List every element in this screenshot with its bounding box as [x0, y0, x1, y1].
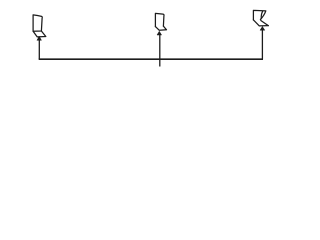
- lightning-protection schematic: three air-terminal flags on a roof conductor with down conductor: [0, 0, 300, 74]
- air terminal F1 (flag, left): [33, 15, 46, 37]
- air terminal F3 (flag, right): [253, 10, 268, 26]
- wire: left rod lead down to roof conductor: [38, 40, 40, 59]
- wire: middle rod lead down through roof conductor: [159, 35, 161, 59]
- wire: right rod lead down to roof conductor: [261, 30, 263, 59]
- arrowhead (right rod tip): [260, 27, 265, 31]
- arrowhead (middle rod tip): [157, 31, 162, 35]
- arrowhead (left rod tip): [37, 36, 42, 40]
- air terminal F2 (flag, middle): [155, 13, 166, 30]
- wire: down conductor stub below roof conductor: [159, 59, 161, 66]
- wire: roof conductor bus: [39, 58, 263, 60]
